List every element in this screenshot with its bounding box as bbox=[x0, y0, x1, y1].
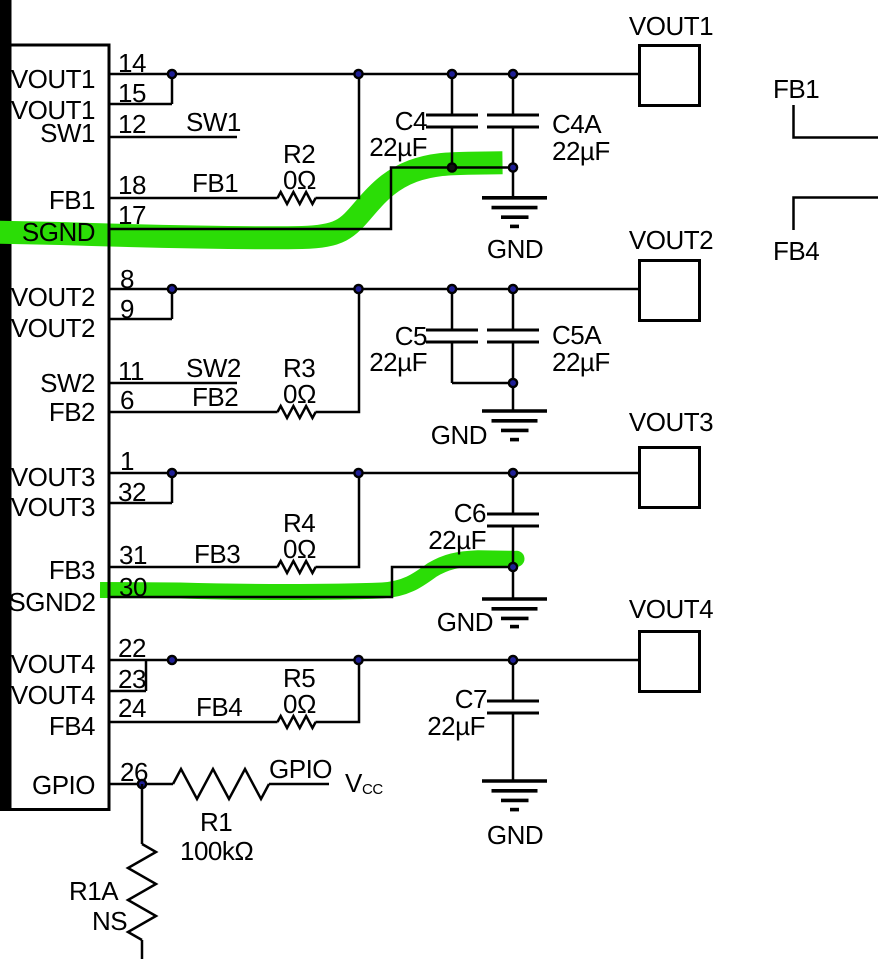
capacitor C5 bottom lead bbox=[451, 342, 454, 383]
port VOUT3 bbox=[640, 448, 700, 508]
svg-text:GND: GND bbox=[437, 607, 493, 637]
svg-text:0Ω: 0Ω bbox=[283, 689, 316, 719]
capacitor C4 bottom lead bbox=[451, 127, 454, 168]
svg-text:SW2: SW2 bbox=[40, 368, 95, 398]
svg-text:C7: C7 bbox=[455, 684, 487, 714]
svg-text:VOUT2: VOUT2 bbox=[11, 313, 95, 343]
capacitor C4A plates bbox=[487, 115, 539, 127]
capacitor C5A bottom lead bbox=[512, 342, 515, 383]
svg-text:0Ω: 0Ω bbox=[283, 165, 316, 195]
ground GND (row 2) bbox=[482, 383, 547, 440]
svg-text:VOUT1: VOUT1 bbox=[11, 64, 95, 94]
wire SGND2 (pin 30) bbox=[109, 567, 513, 597]
port VOUT2 bbox=[640, 261, 700, 321]
svg-text:22µF: 22µF bbox=[552, 347, 610, 377]
highlighter mark over SGND2 net (row 3) bbox=[100, 558, 512, 592]
svg-text:FB2: FB2 bbox=[49, 397, 95, 427]
wire SW2 (pin 11) bbox=[109, 382, 237, 385]
IC U1 right edge bbox=[108, 44, 111, 812]
wire pin 23 stub bbox=[109, 690, 146, 693]
svg-text:C4A: C4A bbox=[552, 109, 602, 139]
svg-text:0Ω: 0Ω bbox=[283, 379, 316, 409]
capacitor C4A top lead bbox=[512, 74, 515, 115]
junction dot R2 rail bbox=[353, 69, 364, 80]
svg-text:17: 17 bbox=[118, 200, 146, 230]
wire FB2 (pin 6) to R3 bbox=[109, 411, 278, 414]
svg-text:VOUT3: VOUT3 bbox=[11, 492, 95, 522]
svg-text:GPIO: GPIO bbox=[269, 754, 332, 784]
svg-text:VOUT4: VOUT4 bbox=[629, 594, 713, 624]
junction dot R3 rail bbox=[353, 284, 364, 295]
svg-text:FB1: FB1 bbox=[192, 168, 238, 198]
svg-text:NS: NS bbox=[92, 906, 127, 936]
svg-text:23: 23 bbox=[118, 664, 146, 694]
wire R5 to rail vertical bbox=[316, 660, 360, 722]
svg-text:22: 22 bbox=[118, 633, 146, 663]
svg-text:FB3: FB3 bbox=[194, 539, 240, 569]
wire VOUT3 rail (pin 1 to VOUT3 port) bbox=[109, 472, 638, 475]
svg-text:V: V bbox=[345, 768, 363, 798]
svg-text:VOUT3: VOUT3 bbox=[11, 462, 95, 492]
junction dot R5 rail bbox=[353, 655, 364, 666]
wire pin 9 stub bbox=[109, 318, 172, 321]
svg-text:SGND: SGND bbox=[22, 217, 95, 247]
port VOUT4 bbox=[640, 632, 700, 692]
junction dot C4A rail bbox=[508, 69, 519, 80]
svg-text:GND: GND bbox=[431, 420, 487, 450]
svg-text:GND: GND bbox=[487, 820, 543, 850]
capacitor C6 plates bbox=[487, 514, 539, 526]
junction dot R4 rail bbox=[353, 468, 364, 479]
svg-text:FB1: FB1 bbox=[49, 185, 95, 215]
wire VOUT4 rail (pin 22 to VOUT4 port) bbox=[109, 659, 638, 662]
svg-text:22µF: 22µF bbox=[552, 136, 610, 166]
junction dot pin1/32 bbox=[167, 468, 178, 479]
svg-text:VOUT1: VOUT1 bbox=[629, 11, 713, 41]
port VOUT1 bbox=[640, 46, 700, 106]
junction dot C5 rail bbox=[447, 284, 458, 295]
svg-text:C5A: C5A bbox=[552, 320, 602, 350]
wire R1 to GPIO net label bbox=[269, 783, 329, 786]
IC U1 left edge bar bbox=[0, 0, 12, 811]
svg-text:FB1: FB1 bbox=[773, 74, 819, 104]
svg-text:31: 31 bbox=[119, 540, 147, 570]
ground GND (row 3) bbox=[482, 567, 547, 627]
svg-text:VOUT4: VOUT4 bbox=[11, 649, 95, 679]
capacitor C7 bottom lead bbox=[512, 713, 515, 781]
svg-text:FB4: FB4 bbox=[196, 692, 242, 722]
junction dot pin8/9 bbox=[167, 284, 178, 295]
IC U1 top edge bbox=[10, 44, 111, 47]
capacitor C5A plates bbox=[487, 330, 539, 342]
junction dot C5A rail bbox=[508, 284, 519, 295]
svg-text:R1: R1 bbox=[200, 807, 232, 837]
IC U1 bottom edge bbox=[0, 808, 111, 811]
wire pin15-to-rail vertical bbox=[171, 74, 174, 104]
capacitor C5 top lead bbox=[451, 289, 454, 330]
svg-text:22µF: 22µF bbox=[427, 711, 485, 741]
svg-text:FB3: FB3 bbox=[49, 555, 95, 585]
svg-text:VOUT3: VOUT3 bbox=[629, 407, 713, 437]
svg-text:GND: GND bbox=[487, 234, 543, 264]
wire FB4 (pin 24) to R5 bbox=[109, 721, 278, 724]
resistor R3 bbox=[278, 406, 316, 418]
svg-text:24: 24 bbox=[118, 693, 146, 723]
junction dot C7 rail bbox=[508, 655, 519, 666]
highlighter mark over SGND net (row 1) bbox=[0, 163, 503, 238]
capacitor C6 top lead bbox=[512, 473, 515, 514]
wire R2 to rail vertical bbox=[316, 74, 360, 198]
junction dot C5A bottom bbox=[508, 378, 519, 389]
resistor R5 bbox=[278, 716, 316, 728]
wire pin 15 stub bbox=[109, 103, 172, 106]
wire VOUT2 rail (pin 8 to VOUT2 port) bbox=[109, 288, 638, 291]
ground GND (row 1) bbox=[482, 168, 547, 227]
wire R4 to rail vertical bbox=[316, 473, 360, 567]
wire VOUT1 rail (pin 14 to VOUT1 port) bbox=[109, 73, 638, 76]
svg-text:11: 11 bbox=[118, 356, 144, 386]
wire SGND (pin 17) bbox=[109, 168, 513, 230]
svg-text:22µF: 22µF bbox=[369, 347, 427, 377]
svg-text:0Ω: 0Ω bbox=[283, 534, 316, 564]
wire pin 32 stub bbox=[109, 502, 172, 505]
junction dot C4A bottom bbox=[508, 162, 519, 173]
flag FB1 (right) bbox=[794, 105, 878, 138]
svg-text:SGND2: SGND2 bbox=[8, 587, 95, 617]
svg-text:6: 6 bbox=[120, 385, 134, 415]
svg-text:100kΩ: 100kΩ bbox=[180, 836, 253, 866]
resistor R4 bbox=[278, 561, 316, 573]
svg-text:18: 18 bbox=[118, 170, 146, 200]
svg-text:R1A: R1A bbox=[69, 876, 119, 906]
capacitor C7 top lead bbox=[512, 660, 515, 701]
svg-text:22µF: 22µF bbox=[369, 132, 427, 162]
capacitor C7 plates bbox=[487, 701, 539, 713]
svg-text:VOUT2: VOUT2 bbox=[11, 282, 95, 312]
wire pin32-to-rail vertical bbox=[171, 473, 174, 503]
capacitor C5A top lead bbox=[512, 289, 515, 330]
wire SW1 (pin 12) bbox=[109, 136, 237, 139]
svg-text:FB4: FB4 bbox=[49, 711, 95, 741]
svg-text:CC: CC bbox=[362, 781, 383, 798]
resistor R1 bbox=[173, 769, 269, 799]
junction dot C6 bottom bbox=[508, 562, 519, 573]
svg-text:VOUT2: VOUT2 bbox=[629, 225, 713, 255]
svg-text:22µF: 22µF bbox=[428, 525, 486, 555]
junction dot C4 rail bbox=[447, 69, 458, 80]
junction dot pin22/23 bbox=[167, 655, 178, 666]
resistor R1A bbox=[128, 844, 156, 940]
svg-text:SW2: SW2 bbox=[186, 353, 241, 383]
capacitor C4A bottom lead bbox=[512, 127, 515, 168]
svg-text:FB4: FB4 bbox=[773, 236, 819, 266]
wire pin23-to-rail vertical bbox=[145, 660, 148, 691]
junction dot C4 bottom bbox=[447, 162, 458, 173]
ground GND (row 4) bbox=[482, 781, 547, 810]
capacitor C4 plates bbox=[426, 115, 478, 127]
junction dot GPIO bbox=[137, 779, 148, 790]
capacitor C5 plates bbox=[426, 330, 478, 342]
svg-text:FB2: FB2 bbox=[192, 382, 238, 412]
svg-text:SW1: SW1 bbox=[40, 118, 95, 148]
wire pin9-to-rail vertical bbox=[171, 289, 174, 319]
capacitor C6 bottom lead bbox=[512, 526, 515, 567]
wire GPIO (pin 26) to R1 bbox=[109, 783, 173, 786]
wire FB3 (pin 31) to R4 bbox=[109, 566, 278, 569]
junction dot C6 rail bbox=[508, 468, 519, 479]
svg-text:SW1: SW1 bbox=[186, 107, 241, 137]
junction dot pin14/15 bbox=[167, 69, 178, 80]
svg-text:12: 12 bbox=[118, 109, 146, 139]
resistor R2 bbox=[278, 192, 316, 204]
svg-text:1: 1 bbox=[120, 446, 134, 476]
wire R1A to bottom edge bbox=[141, 940, 144, 960]
svg-text:GPIO: GPIO bbox=[32, 770, 95, 800]
capacitor C4 top lead bbox=[451, 74, 454, 115]
wire C5-C5A bottom rail bbox=[452, 382, 513, 385]
svg-text:C6: C6 bbox=[454, 498, 486, 528]
wire R3 to rail vertical bbox=[316, 289, 360, 412]
wire GPIO to R1A bbox=[141, 784, 144, 844]
svg-text:VOUT4: VOUT4 bbox=[11, 680, 95, 710]
wire FB1 (pin 18) to R2 bbox=[109, 197, 278, 200]
flag FB4 (right) bbox=[794, 198, 878, 231]
